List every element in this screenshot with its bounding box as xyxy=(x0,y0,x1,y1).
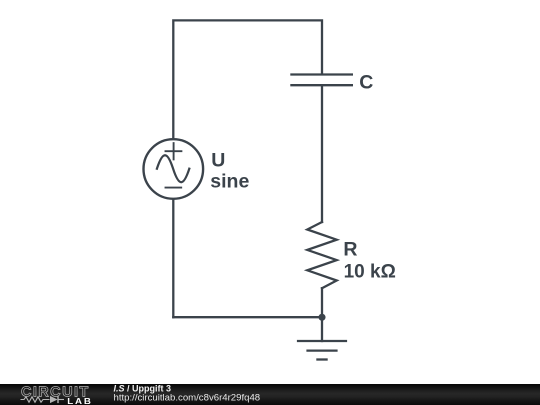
footer bar xyxy=(0,384,540,405)
wire source bottom to bottom rail xyxy=(172,199,174,317)
logo wire with resistor squiggle xyxy=(21,397,50,402)
plus sign xyxy=(166,143,182,159)
minus sign xyxy=(166,187,182,189)
svg-text:LAB: LAB xyxy=(67,397,93,405)
wire resistor to ground node xyxy=(321,288,323,341)
wire bottom rail xyxy=(173,316,322,318)
junction node dot xyxy=(318,314,325,321)
ground symbol xyxy=(297,341,347,360)
resistor R (zigzag) xyxy=(307,222,336,288)
logo diode xyxy=(50,396,58,403)
wire top-left loop (left vertical + top rail + right drop to capacitor) xyxy=(173,20,322,139)
sine symbol xyxy=(157,155,189,182)
capacitor C xyxy=(290,75,353,86)
voltage source U (circle) xyxy=(144,139,204,199)
wire capacitor to resistor xyxy=(321,85,323,222)
svg-text:http://circuitlab.com/c8v6r4r2: http://circuitlab.com/c8v6r4r29fq48 xyxy=(114,392,261,403)
